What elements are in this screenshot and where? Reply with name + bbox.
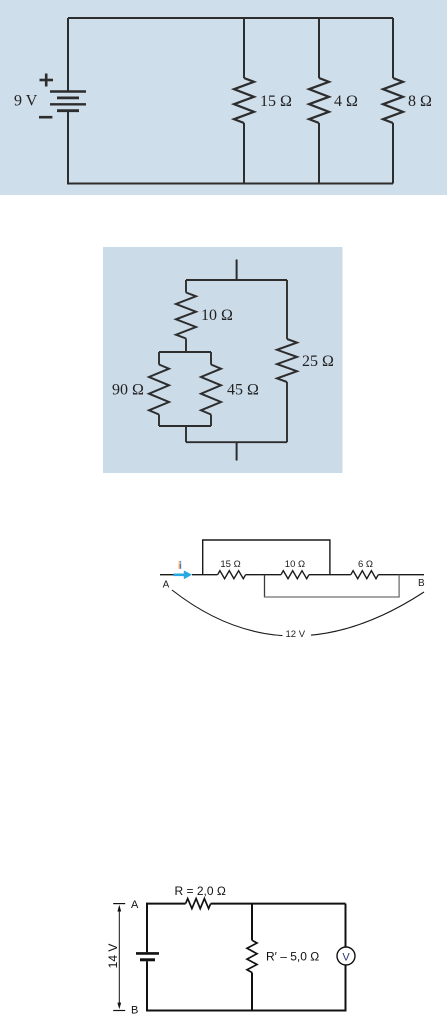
svg-text:A: A bbox=[131, 899, 139, 911]
dimension tick top bbox=[113, 903, 125, 905]
wire top bypass loop bbox=[203, 540, 330, 575]
wire left above battery bbox=[67, 18, 69, 92]
wire 10ohm to box bbox=[185, 339, 187, 353]
resistor R 25ohm bbox=[277, 339, 297, 382]
arc text gap bbox=[283, 625, 312, 641]
wire box right upper lead bbox=[210, 352, 212, 365]
wire left below battery bbox=[67, 111, 69, 185]
wire lower bypass left vertical bbox=[264, 575, 266, 597]
wire bottom (circuit 4) bbox=[146, 1010, 347, 1012]
svg-text:R = 2,0 Ω: R = 2,0 Ω bbox=[175, 884, 226, 898]
wire box top bbox=[159, 351, 211, 353]
resistor 10ohm (circuit 3) bbox=[281, 571, 309, 579]
svg-text:10 Ω: 10 Ω bbox=[285, 559, 305, 570]
wire branch 8ohm upper (right edge) bbox=[392, 18, 394, 78]
svg-text:90 Ω: 90 Ω bbox=[112, 382, 144, 399]
resistor R 2,0ohm bbox=[186, 899, 211, 909]
resistor 15ohm (circuit 3) bbox=[218, 571, 246, 579]
wire lower bypass right vertical (gray) bbox=[398, 575, 400, 597]
svg-text:15 Ω: 15 Ω bbox=[260, 93, 292, 110]
svg-text:15 Ω: 15 Ω bbox=[220, 559, 240, 570]
resistor R 15ohm bbox=[234, 78, 254, 123]
battery long plate bbox=[136, 952, 159, 955]
wire bottom (circuit 1) bbox=[68, 183, 393, 185]
resistor 6ohm (circuit 3) bbox=[351, 571, 379, 579]
wire 10ohm to 6ohm bbox=[309, 574, 351, 576]
svg-text:10 Ω: 10 Ω bbox=[201, 307, 233, 324]
wire top with gap (circuit 4) bbox=[147, 903, 186, 905]
panel background circuit 1 bbox=[0, 0, 447, 195]
wire 6ohm to B bbox=[378, 574, 424, 576]
wire arrow to 15ohm bbox=[192, 574, 218, 576]
resistor R 90ohm bbox=[149, 365, 169, 415]
svg-text:4 Ω: 4 Ω bbox=[334, 93, 358, 110]
wire right branch upper lead bbox=[286, 280, 288, 339]
dimension arrow down bbox=[117, 1003, 121, 1010]
wire box left lower lead bbox=[158, 415, 160, 427]
svg-text:V: V bbox=[342, 951, 350, 963]
wire top right segment bbox=[211, 903, 346, 905]
svg-text:B: B bbox=[131, 1005, 138, 1017]
wire left above battery (circuit 4) bbox=[146, 903, 148, 953]
resistor R 45ohm bbox=[201, 365, 221, 415]
wire 15ohm to 10ohm bbox=[246, 574, 281, 576]
resistor R 4ohm bbox=[309, 78, 329, 123]
wire top (circuit 2) bbox=[186, 279, 287, 281]
svg-text:45 Ω: 45 Ω bbox=[227, 382, 259, 399]
wire bottom (circuit 2) bbox=[186, 441, 287, 443]
battery plus sign bbox=[40, 74, 54, 87]
label i (two-tone) bbox=[179, 561, 182, 569]
wire box center down bbox=[185, 426, 187, 442]
dimension tick bottom bbox=[113, 1010, 125, 1012]
svg-text:14 V: 14 V bbox=[106, 944, 120, 969]
wire box right lower lead bbox=[210, 415, 212, 427]
wire middle branch upper bbox=[251, 904, 253, 941]
dimension line 14V bbox=[118, 909, 120, 1007]
wire branch 4ohm upper bbox=[318, 18, 320, 78]
wire right branch lower lead bbox=[286, 382, 288, 442]
wire top (circuit 1) bbox=[68, 17, 393, 19]
wire left below battery (circuit 4) bbox=[146, 961, 148, 1010]
svg-text:6 Ω: 6 Ω bbox=[358, 559, 373, 570]
svg-text:25 Ω: 25 Ω bbox=[302, 353, 334, 370]
wire right branch lower bbox=[345, 965, 347, 1011]
wire middle branch lower bbox=[251, 973, 253, 1011]
battery short plate bbox=[140, 958, 155, 961]
dimension arrow up bbox=[117, 905, 121, 912]
current arrow i (blue) bbox=[174, 570, 193, 579]
wire branch 8ohm lower bbox=[392, 123, 394, 184]
wire box left upper lead bbox=[158, 352, 160, 365]
wire lower bypass bottom (gray) bbox=[264, 596, 400, 598]
svg-text:B: B bbox=[418, 578, 425, 589]
wire box bottom bbox=[159, 425, 211, 427]
wire branch 15ohm lower bbox=[243, 123, 245, 184]
voltmeter V bbox=[337, 947, 355, 965]
svg-text:8 Ω: 8 Ω bbox=[408, 93, 432, 110]
wire branch 15ohm upper bbox=[243, 18, 245, 78]
resistor Rprime 5,0ohm bbox=[247, 940, 257, 972]
resistor R 10ohm bbox=[176, 293, 196, 339]
battery B1 plates bbox=[50, 92, 86, 111]
svg-text:A: A bbox=[163, 580, 170, 591]
terminal stub bottom bbox=[236, 442, 238, 460]
wire right branch upper bbox=[345, 904, 347, 947]
svg-text:12 V: 12 V bbox=[286, 629, 306, 640]
wire branch 4ohm lower bbox=[318, 123, 320, 184]
battery arc 12V bbox=[172, 590, 424, 636]
svg-text:R′ – 5,0 Ω: R′ – 5,0 Ω bbox=[266, 950, 319, 964]
resistor R 8ohm bbox=[383, 78, 403, 123]
battery minus sign bbox=[39, 116, 52, 119]
wire left branch upper lead bbox=[185, 280, 187, 293]
wire main left segment (circuit 3) bbox=[160, 574, 175, 576]
panel background circuit 2 bbox=[103, 247, 343, 473]
svg-text:9 V: 9 V bbox=[14, 93, 38, 110]
terminal stub top bbox=[236, 260, 238, 281]
